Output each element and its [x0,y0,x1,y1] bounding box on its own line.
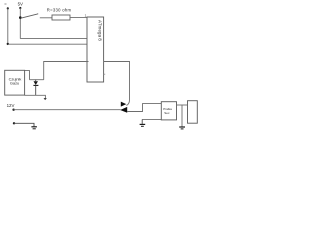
diode D1 cathode lead [35,86,37,96]
wire 12V supply to triac MT1 [14,109,121,111]
node junction dot at DC rail bottom [7,43,9,45]
svg-text:2: 2 [85,13,87,17]
diode D1 triangle [34,81,39,85]
load box B1 [188,101,198,124]
wire diode top rail [30,79,44,81]
switch S1 pivot dot [19,16,22,19]
relay box K1 [161,102,176,120]
svg-text:Sec: Sec [164,111,170,115]
svg-text:Gazu: Gazu [10,81,19,86]
wire relay box bottom return [142,118,161,120]
wire triac MT2 to relay box [127,104,161,112]
wire 5V rail to ATmega pin [20,38,88,40]
svg-text:ATmega 8: ATmega 8 [98,20,103,41]
ground symbol right [181,105,183,127]
wire czujnik bottom rail [25,95,46,98]
wire resistor to ATmega top corner [70,16,88,18]
ground symbol left [31,126,37,128]
svg-text:=: = [4,1,7,6]
wire relay box to load box [177,104,188,106]
diode D1 cathode bar [33,84,38,86]
switch S1 lever (open) [21,14,38,19]
wire DC rail vertical [7,8,9,43]
svg-text:12V: 12V [7,103,15,108]
wire ATmega to triac gate [104,62,130,106]
svg-text:R=330 ohm: R=330 ohm [47,8,72,13]
node 12V terminal dot [12,109,14,111]
wire switch to resistor [40,17,52,19]
node DC rail terminal dot [7,7,9,9]
node pin stub on U1 right edge [104,73,106,75]
wire riser to ATmega left pin [44,62,89,80]
wire 5V rail vertical [19,8,21,39]
node 5V terminal dot [19,7,21,9]
node ground stub terminal dot [13,122,15,124]
transistor T1 triac lower triangle [120,107,127,113]
wire ground stub [14,123,34,126]
transistor Q1 gas sensor box Czujnik Gazu [5,70,25,95]
resistor R1 body [52,15,70,20]
transistor T1 triac upper triangle [121,102,127,107]
svg-text:5V: 5V [18,1,23,6]
node arrow terminal below czujnik rail [44,98,47,100]
diode D1 anode lead [35,80,37,82]
op-amp U1 ATmega 8 box [87,17,104,82]
wire czujnik box top corner to riser [25,71,30,80]
ground symbol middle [141,119,143,124]
wire DC rail to ATmega pin [8,43,89,45]
